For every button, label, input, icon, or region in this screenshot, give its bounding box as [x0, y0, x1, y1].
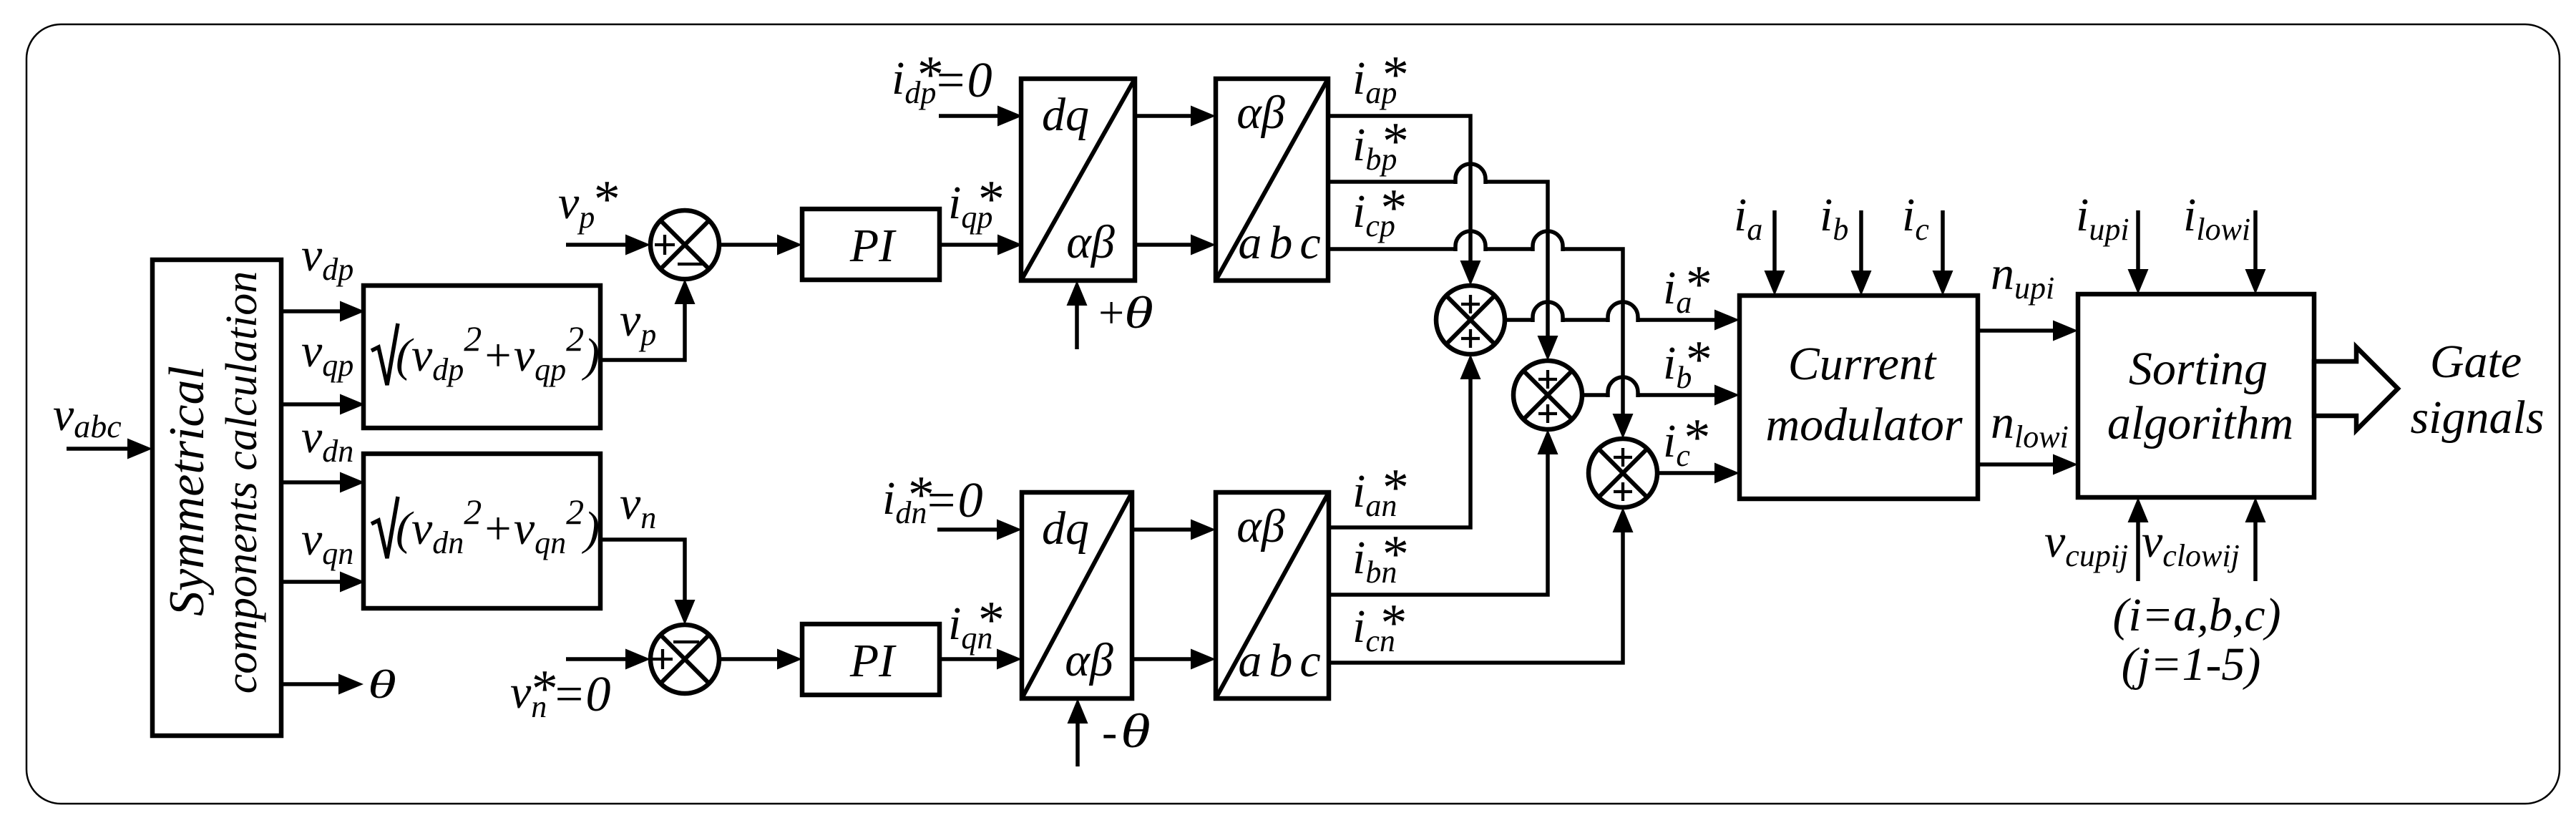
- node Gate signals label: [2410, 336, 2544, 444]
- wire i_cp* with hops: [1328, 231, 1634, 439]
- wire v_clowij input: [2245, 497, 2266, 581]
- wire PI2 to dq2 with i_qn*: [940, 649, 1022, 670]
- svg-text:(j=1-5): (j=1-5): [2122, 638, 2261, 691]
- wire n_upi: [1978, 321, 2078, 341]
- svg-text:Sorting: Sorting: [2129, 343, 2268, 395]
- svg-text:θ: θ: [368, 663, 396, 707]
- svg-text:αβ: αβ: [1066, 216, 1115, 268]
- wire S2 to PI2: [719, 649, 802, 670]
- wire PI1 to dq1 with i_qp*: [940, 235, 1023, 255]
- svg-text:PI: PI: [849, 635, 897, 687]
- block magnitude negative sqrt(vdn^2+vqn^2): [364, 454, 600, 608]
- svg-text:ia*: ia*: [1663, 255, 1709, 320]
- wire -theta input: [1068, 698, 1088, 766]
- block U2 Current modulator: [1740, 296, 1978, 499]
- wire dq2 to ab2 bottom: [1132, 649, 1216, 670]
- wire v_qn: [281, 572, 365, 593]
- wire v_dp: [281, 301, 365, 322]
- svg-text:modulator: modulator: [1765, 399, 1962, 451]
- block U1 Symmetrical components calculation: [152, 260, 281, 736]
- svg-text:PI: PI: [849, 220, 897, 272]
- svg-text:algorithm: algorithm: [2107, 397, 2293, 449]
- block ab2 alphabeta to abc: [1216, 492, 1329, 698]
- svg-text:abc: abc: [1238, 217, 1327, 269]
- svg-text:ibp*: ibp*: [1352, 112, 1406, 177]
- block ab1 alphabeta to abc: [1216, 79, 1328, 281]
- svg-text:+: +: [1096, 287, 1126, 338]
- svg-text:ib*: ib*: [1663, 331, 1709, 395]
- svg-text:components calculation: components calculation: [218, 271, 266, 694]
- wire v_n from sqrt2 to summer S2: [600, 540, 696, 625]
- gate signals block arrow: [2314, 347, 2398, 430]
- svg-text:Symmetrical: Symmetrical: [160, 366, 215, 616]
- wire n_lowi: [1978, 454, 2078, 475]
- block PI2: [802, 624, 940, 695]
- wire i_c measured input: [1933, 210, 1953, 296]
- wire dq2 to ab2 top: [1132, 520, 1216, 540]
- wire +theta input: [1067, 281, 1088, 349]
- block dq2 dq to alphabeta: [1022, 492, 1132, 698]
- svg-text:θ: θ: [1124, 288, 1153, 339]
- wire i_c* S5 to modulator: [1657, 463, 1740, 484]
- wire i_a measured input: [1765, 210, 1785, 296]
- summer S1: [650, 210, 719, 279]
- block PI1: [802, 209, 940, 280]
- wire v_n*=0 input: [566, 649, 650, 670]
- svg-text:signals: signals: [2410, 391, 2544, 444]
- wire i_dp*=0 input: [939, 106, 1023, 127]
- svg-text:iap*: iap*: [1352, 46, 1406, 110]
- svg-text:icp*: icp*: [1352, 179, 1405, 243]
- svg-text:ic*: ic*: [1663, 409, 1708, 473]
- wire i_ap*: [1328, 116, 1481, 286]
- svg-text:vn*=0: vn*=0: [510, 660, 611, 724]
- wire v_dn: [281, 472, 365, 493]
- svg-text:αβ: αβ: [1065, 634, 1113, 686]
- wire theta output: [281, 674, 364, 695]
- wire S1 to PI1: [719, 235, 802, 255]
- wire i_cn*: [1329, 507, 1634, 663]
- svg-text:iqp*: iqp*: [948, 170, 1002, 235]
- svg-text:ibn*: ibn*: [1352, 525, 1406, 590]
- svg-text:iqn*: iqn*: [948, 591, 1002, 656]
- wire v_abc input: [67, 439, 152, 459]
- svg-text:ian*: ian*: [1352, 459, 1406, 523]
- summer S5: [1589, 439, 1657, 507]
- svg-text:dq: dq: [1042, 89, 1089, 141]
- wire i_upi input: [2128, 210, 2149, 294]
- summer S4: [1513, 361, 1582, 429]
- block U3 Sorting algorithm: [2078, 294, 2314, 497]
- svg-text:dq: dq: [1042, 502, 1089, 555]
- svg-text:αβ: αβ: [1236, 87, 1285, 139]
- svg-text:αβ: αβ: [1236, 500, 1285, 552]
- svg-text:Gate: Gate: [2430, 336, 2522, 388]
- svg-text:(i=a,b,c): (i=a,b,c): [2112, 589, 2280, 641]
- wire dq1 to ab1 top: [1135, 106, 1216, 127]
- svg-text:Current: Current: [1788, 338, 1937, 390]
- wire i_an*: [1329, 354, 1481, 527]
- wire i_a* S3 to modulator with hops: [1505, 302, 1740, 331]
- wire i_b measured input: [1851, 210, 1872, 296]
- wire i_bn*: [1329, 429, 1558, 595]
- svg-text:θ: θ: [1121, 703, 1151, 758]
- wire v_qp: [281, 394, 365, 415]
- wire v_cupij input: [2128, 497, 2149, 581]
- wire v_p* reference input: [566, 235, 650, 255]
- wire i_b* S4 to modulator with hop: [1582, 377, 1740, 406]
- summer S2: [650, 625, 719, 693]
- wire dq1 to ab1 bottom: [1135, 235, 1216, 255]
- wire i_lowi input: [2245, 210, 2266, 294]
- svg-text:abc: abc: [1238, 635, 1327, 687]
- svg-text:icn*: icn*: [1352, 594, 1405, 658]
- summer S3: [1436, 286, 1505, 354]
- wire v_p from sqrt to summer S1: [600, 279, 696, 360]
- block magnitude positive sqrt(vdp^2+vqp^2): [364, 286, 600, 428]
- wire i_dn*=0 input: [937, 520, 1022, 540]
- block dq1 dq to alphabeta: [1021, 79, 1135, 281]
- svg-text:-: -: [1102, 706, 1117, 757]
- wire i_bp* with hop: [1328, 164, 1558, 361]
